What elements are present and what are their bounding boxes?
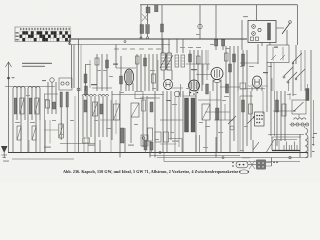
svg-text:Abb. 236. Kapsch, 150 GW, und: Abb. 236. Kapsch, 150 GW, und Ideal, 5 G… xyxy=(63,169,238,174)
